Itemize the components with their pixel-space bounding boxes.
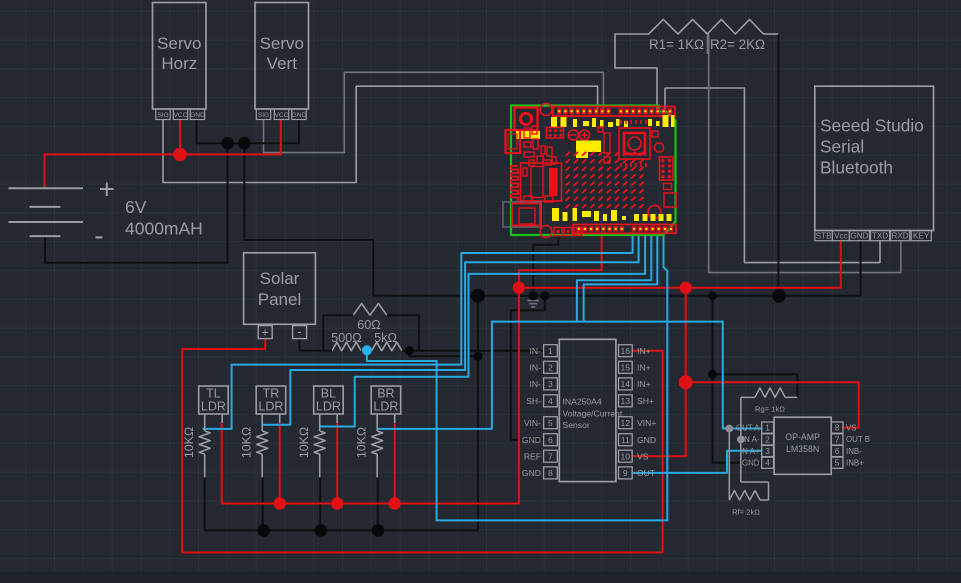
battery BT1 6V 4000mAH [8,188,83,236]
node ground drop [473,352,482,361]
wire 60ohm left lead junction [322,315,324,351]
svg-text:VS: VS [637,451,649,461]
svg-text:5: 5 [548,418,553,428]
wire divider output to INA250 IN- pin 1 [409,350,543,352]
wire BR LDR tap to op-amp OUT A pin 1 [378,322,762,429]
svg-text:OUT B: OUT B [846,435,870,444]
svg-text:IN+: IN+ [637,379,651,389]
node ground symbol tap [529,291,538,300]
wire INA250 OUT pin 9 to op-amp IN A+ pin 3 [632,451,762,473]
wire LDR supply bus [222,423,519,504]
wire arduino A3 to TL LDR divider tap [203,236,632,429]
svg-text:TR: TR [263,387,280,401]
svg-text:10: 10 [621,451,631,461]
svg-text:Vert: Vert [267,54,298,73]
LDR TL [199,386,229,429]
svg-text:LDR: LDR [373,400,398,414]
node Rg ground branch [708,370,717,379]
svg-text:GND: GND [190,112,205,119]
svg-text:OUT A: OUT A [736,423,760,432]
svg-text:VIN+: VIN+ [637,418,656,428]
wire 5V drop to INA250 VS pin 10 [632,288,686,456]
wire ground bus drop to LDR ground bus [477,296,479,531]
node divider output [405,346,414,355]
svg-text:15: 15 [621,363,631,373]
svg-text:GND: GND [522,435,541,445]
resistor 10K under TL LDR [182,427,210,478]
svg-text:BL: BL [321,387,336,401]
resistor 10K under BR LDR [355,427,383,478]
svg-text:INB+: INB+ [846,459,864,468]
wire 5V branch to op-amp VS pin 8 [686,382,859,427]
wire battery negative to servo ground node [45,143,228,262]
wire TR resistor to ground bus [262,477,264,530]
wire arduino A5 horizontal [584,236,658,284]
resistor 60 ohm [353,304,387,316]
wire arduino A5 drop [583,284,585,321]
ground symbol [527,296,539,307]
node LDR ground BL [315,524,328,537]
resistor 10K under BL LDR [297,427,325,478]
svg-text:OUT: OUT [637,468,656,478]
module U4 Seeed Studio Serial Bluetooth [815,86,934,241]
svg-text:6V: 6V [125,197,147,217]
svg-text:RXD: RXD [891,232,908,241]
wire solar panel positive loop to INA250 IN+ pin 16 [182,339,662,553]
svg-text:Voltage/Current: Voltage/Current [563,408,623,418]
svg-text:6: 6 [548,435,553,445]
svg-text:4: 4 [548,396,553,406]
solar panel PV1 [244,253,316,340]
svg-text:14: 14 [621,379,631,389]
servo M2 Servo Vert [255,3,309,120]
svg-text:Vcc: Vcc [834,232,848,241]
wire servo-horz VCC branch [179,120,181,154]
wire BR LDR supply branch [394,423,396,504]
bottom edge shade [0,572,961,583]
svg-text:4: 4 [765,458,770,468]
svg-text:+: + [99,174,115,205]
svg-text:IN-: IN- [530,379,542,389]
wire Rg right lead to ground branch [713,374,798,397]
svg-text:SH-: SH- [526,396,541,406]
resistor R1 1K [649,19,708,34]
svg-text:-: - [297,324,301,339]
svg-text:Bluetooth: Bluetooth [820,158,893,178]
wire 60ohm right lead junction [418,315,420,351]
wire BL resistor to ground bus [319,477,321,530]
svg-text:12: 12 [621,418,631,428]
svg-text:GND: GND [292,112,307,119]
node LDR supply TR [274,497,286,509]
wire arduino GND to ground bus [533,236,558,296]
arduino U3 board [503,104,676,238]
wire main ground bus to bluetooth GND [244,143,860,295]
svg-text:6: 6 [835,446,840,456]
svg-text:GND: GND [850,232,868,241]
svg-text:10KΩ: 10KΩ [240,427,254,458]
svg-text:Horz: Horz [161,54,197,73]
svg-text:IN A+: IN A+ [740,447,760,456]
node LDR supply BL [331,497,343,509]
resistor 10K under TR LDR [240,427,268,478]
svg-text:10KΩ: 10KΩ [355,427,369,458]
svg-text:10KΩ: 10KΩ [297,427,311,458]
node LDR ground BR [372,524,385,537]
wire arduino A4 drop [577,236,651,322]
LDR BR [371,386,401,429]
svg-text:1: 1 [765,423,770,433]
svg-text:R2= 2KΩ: R2= 2KΩ [710,37,765,52]
node servo GND junction 1 [221,137,234,150]
node 5V bus right [680,282,692,294]
wire BL LDR supply branch [336,423,338,504]
svg-text:3: 3 [765,446,770,456]
node ground bus main [471,289,485,303]
LDR BL [314,386,344,429]
svg-text:Seeed Studio: Seeed Studio [820,116,924,136]
node LDR supply BR [389,497,401,509]
svg-text:13: 13 [621,396,631,406]
svg-text:Solar: Solar [260,269,300,288]
op-amp U2 LM358N [736,417,870,474]
wire servo-vert SIG to arduino D10 [264,72,604,152]
svg-text:Servo: Servo [260,34,304,53]
svg-text:BR: BR [377,387,394,401]
svg-text:GND: GND [742,459,760,468]
wire arduino A2 to TR LDR divider tap [263,236,639,425]
wire R1 left lead to arduino TX [615,34,657,112]
wire bluetooth TXD to arduino RX [665,88,880,263]
svg-text:REF: REF [524,451,541,461]
wire R2 right lead to ground bus [777,34,779,296]
svg-text:INA250A4: INA250A4 [563,397,602,407]
wire battery positive to servo VCC bus [44,120,280,188]
svg-text:SIG: SIG [157,112,168,119]
svg-text:8: 8 [835,423,840,433]
svg-text:SIG: SIG [258,112,269,119]
svg-text:IN+: IN+ [637,363,651,373]
svg-text:+: + [261,325,269,340]
svg-text:5: 5 [835,458,840,468]
svg-text:2: 2 [765,434,770,444]
svg-text:SH+: SH+ [637,396,654,406]
svg-text:LDR: LDR [201,400,226,414]
svg-text:INB-: INB- [846,447,862,456]
svg-text:VIN-: VIN- [524,418,541,428]
resistor R2 2K [707,19,763,34]
svg-text:VCC: VCC [275,112,289,119]
svg-text:TXD: TXD [872,232,888,241]
wire potentiometer wiper bus [367,350,667,520]
wire BR resistor to ground bus [377,477,379,530]
wire bluetooth RXD to R1-R2 divider node [709,34,901,273]
svg-text:Serial: Serial [820,137,864,157]
node LDR ground TR [257,524,270,537]
svg-text:KEY: KEY [913,232,930,241]
wire arduino A6 drop [664,236,668,520]
svg-text:GND: GND [522,468,541,478]
svg-text:Panel: Panel [258,290,301,309]
wire LDR ground bus [205,477,478,530]
LDR TR [256,386,286,429]
resistor 5k ohm [372,342,402,351]
node 5V bus left [513,282,525,294]
svg-text:10KΩ: 10KΩ [182,427,196,458]
svg-text:LM358N: LM358N [786,444,819,454]
node ground op-amp branch [708,291,717,300]
wire servo GND bus [197,120,300,143]
node potentiometer wiper [362,345,372,355]
svg-text:7: 7 [548,451,553,461]
wire ground bus to op-amp GND pin 4 [713,296,762,463]
svg-text:TL: TL [206,387,221,401]
wire arduino A1 to BL LDR divider tap [320,236,645,427]
wire solar panel negative to 500ohm lead [300,339,324,351]
svg-text:8: 8 [548,468,553,478]
node divider mid [706,34,708,54]
svg-text:1: 1 [548,346,553,356]
svg-text:9: 9 [623,468,628,478]
svg-text:VS: VS [846,423,857,432]
svg-text:3: 3 [548,379,553,389]
servo M1 Servo Horz [153,3,207,120]
svg-text:STB: STB [816,232,832,241]
svg-text:500Ω: 500Ω [331,331,361,345]
svg-text:VCC: VCC [174,112,188,119]
wire divider output to ground drop node [409,351,478,357]
resistor 500 ohm [332,342,361,351]
svg-text:Rg= 1kΩ: Rg= 1kΩ [755,405,785,414]
resistor Rg 1k [741,388,798,440]
svg-text:Sensor: Sensor [563,420,590,430]
svg-text:11: 11 [621,435,630,445]
svg-text:5kΩ: 5kΩ [374,331,397,345]
wire ground bus to INA250 GND pin 6 [511,296,545,440]
resistor Rf 2k [729,429,768,517]
node servo VCC junction [173,148,187,162]
svg-text:2: 2 [548,363,553,373]
wire TR LDR supply branch [279,423,281,504]
svg-text:60Ω: 60Ω [357,318,380,332]
IC U1 INA250A4 voltage/current sensor [522,339,656,481]
node R2 ground [772,289,786,303]
wire 5V bus to bluetooth Vcc [519,241,841,288]
node op-amp pin1 feedback [725,425,733,433]
svg-text:LDR: LDR [258,400,283,414]
svg-text:Servo: Servo [157,34,201,53]
svg-text:GND: GND [637,435,656,445]
svg-text:R1= 1KΩ: R1= 1KΩ [649,37,704,52]
svg-text:LDR: LDR [316,400,341,414]
wire arduino 5V down to LDR supply bus [519,236,602,504]
wire servo-horz SIG to arduino D9 [163,86,598,182]
svg-text:4000mAH: 4000mAH [125,219,203,239]
svg-text:-: - [94,220,103,251]
node op-amp pin2 feedback [737,436,745,444]
node 5V op-amp branch [679,375,693,389]
svg-text:7: 7 [835,434,840,444]
svg-text:OP-AMP: OP-AMP [785,432,820,442]
svg-text:IN-: IN- [530,346,542,356]
node ground INA branch [540,291,549,300]
svg-text:IN+: IN+ [637,346,651,356]
svg-text:16: 16 [621,346,631,356]
svg-text:IN-: IN- [530,363,542,373]
node servo GND junction 2 [238,137,251,150]
svg-text:Rf= 2kΩ: Rf= 2kΩ [732,508,760,517]
